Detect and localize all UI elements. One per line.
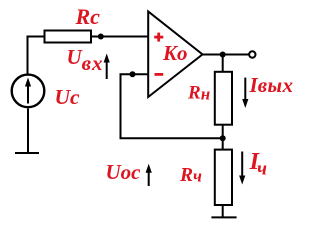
svg-text:Rc: Rc [75,4,101,29]
svg-text:Rн: Rн [187,83,210,104]
svg-text:Iвых: Iвых [249,73,294,97]
svg-text:Ko: Ko [162,41,188,65]
svg-text:Iч: Iч [249,149,267,180]
svg-text:Uвх: Uвх [67,45,104,75]
svg-text:Rч: Rч [179,165,202,186]
svg-text:Uc: Uc [55,85,81,109]
svg-text:Uос: Uос [106,160,142,184]
